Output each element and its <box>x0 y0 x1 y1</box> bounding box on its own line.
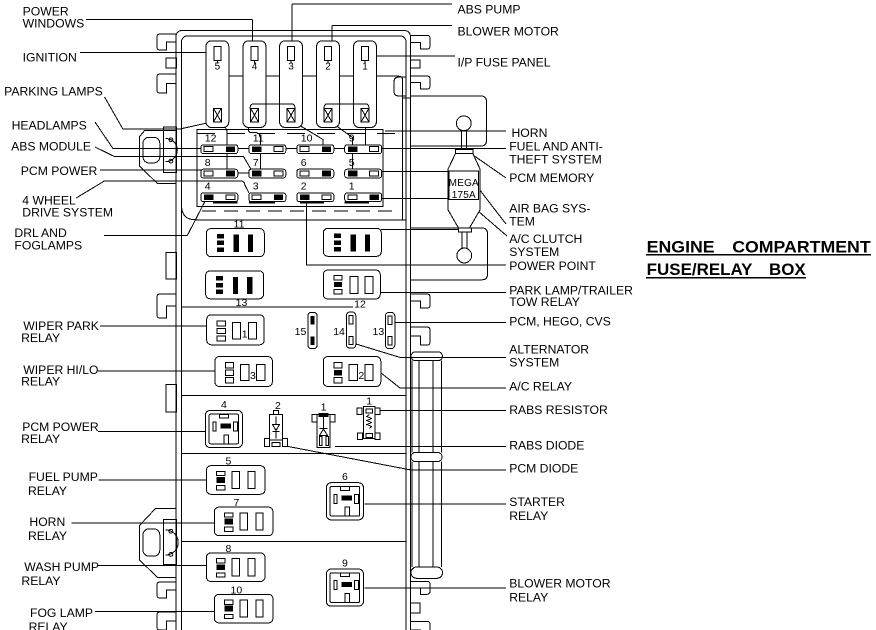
svg-text:3: 3 <box>253 181 259 193</box>
svg-text:9: 9 <box>349 133 355 145</box>
svg-text:STARTER: STARTER <box>509 495 565 509</box>
svg-text:HEADLAMPS: HEADLAMPS <box>12 118 87 132</box>
svg-text:MEGA: MEGA <box>449 178 479 189</box>
svg-text:TOW RELAY: TOW RELAY <box>509 295 580 309</box>
svg-text:PCM MEMORY: PCM MEMORY <box>509 171 594 185</box>
svg-text:5: 5 <box>349 157 355 169</box>
svg-text:1: 1 <box>362 61 368 72</box>
svg-text:ALTERNATOR: ALTERNATOR <box>509 343 589 357</box>
svg-text:RABS DIODE: RABS DIODE <box>509 439 584 453</box>
svg-text:FUSE/RELAY BOX: FUSE/RELAY BOX <box>647 260 807 279</box>
svg-text:2: 2 <box>275 400 281 412</box>
svg-text:3: 3 <box>250 370 256 382</box>
svg-text:WASH PUMP: WASH PUMP <box>24 560 99 574</box>
svg-text:RELAY: RELAY <box>509 509 548 523</box>
svg-text:SYSTEM: SYSTEM <box>509 356 559 370</box>
svg-text:12: 12 <box>354 298 366 310</box>
svg-text:14: 14 <box>333 326 345 338</box>
svg-text:2: 2 <box>301 181 307 193</box>
svg-text:FOG LAMP: FOG LAMP <box>30 606 93 620</box>
svg-text:6: 6 <box>301 157 307 169</box>
svg-text:2: 2 <box>325 61 331 72</box>
svg-text:HORN: HORN <box>29 515 65 529</box>
svg-text:PCM DIODE: PCM DIODE <box>509 462 578 476</box>
svg-text:FUEL PUMP: FUEL PUMP <box>29 470 98 484</box>
svg-text:RELAY: RELAY <box>21 375 60 389</box>
svg-text:RELAY: RELAY <box>28 529 67 543</box>
svg-text:10: 10 <box>231 584 243 596</box>
svg-text:A/C CLUTCH: A/C CLUTCH <box>509 232 582 246</box>
svg-text:SYSTEM: SYSTEM <box>509 245 559 259</box>
svg-text:4: 4 <box>252 61 258 72</box>
svg-text:RABS RESISTOR: RABS RESISTOR <box>509 403 608 417</box>
svg-text:15: 15 <box>295 326 307 338</box>
svg-text:11: 11 <box>234 218 245 230</box>
svg-text:12: 12 <box>205 133 217 145</box>
svg-text:7: 7 <box>253 157 259 169</box>
svg-text:RELAY: RELAY <box>21 331 60 345</box>
svg-text:ABS MODULE: ABS MODULE <box>11 139 91 153</box>
svg-text:5: 5 <box>215 61 221 72</box>
svg-text:7: 7 <box>233 497 239 509</box>
svg-text:PARKING LAMPS: PARKING LAMPS <box>4 85 103 99</box>
svg-text:A/C RELAY: A/C RELAY <box>509 380 572 394</box>
svg-text:13: 13 <box>373 326 385 338</box>
svg-text:RELAY: RELAY <box>29 620 68 630</box>
svg-text:WINDOWS: WINDOWS <box>23 17 85 31</box>
svg-text:6: 6 <box>342 471 348 483</box>
svg-text:THEFT SYSTEM: THEFT SYSTEM <box>509 153 602 167</box>
svg-text:4: 4 <box>205 181 211 193</box>
svg-text:5: 5 <box>225 456 231 468</box>
svg-text:8: 8 <box>225 543 231 555</box>
svg-text:DRIVE SYSTEM: DRIVE SYSTEM <box>22 206 113 220</box>
svg-text:HORN: HORN <box>512 126 548 140</box>
svg-text:RELAY: RELAY <box>21 432 60 446</box>
svg-text:9: 9 <box>342 558 348 570</box>
svg-text:POWER POINT: POWER POINT <box>509 259 596 273</box>
svg-text:175A: 175A <box>452 190 476 201</box>
svg-text:ABS PUMP: ABS PUMP <box>458 3 521 17</box>
svg-text:FUEL AND ANTI-: FUEL AND ANTI- <box>509 140 603 154</box>
svg-text:I/P FUSE PANEL: I/P FUSE PANEL <box>458 56 551 70</box>
svg-text:BLOWER MOTOR: BLOWER MOTOR <box>509 577 611 591</box>
svg-text:2: 2 <box>358 370 364 382</box>
svg-text:1: 1 <box>242 328 248 340</box>
svg-text:4: 4 <box>221 399 227 411</box>
svg-text:FOGLAMPS: FOGLAMPS <box>14 238 82 252</box>
svg-text:AIR BAG SYS-: AIR BAG SYS- <box>509 202 590 216</box>
svg-text:IGNITION: IGNITION <box>23 50 77 64</box>
svg-text:1: 1 <box>349 181 355 193</box>
svg-text:8: 8 <box>205 157 211 169</box>
svg-text:10: 10 <box>301 133 313 145</box>
svg-text:13: 13 <box>236 297 248 309</box>
svg-text:TEM: TEM <box>509 215 535 229</box>
svg-text:RELAY: RELAY <box>509 591 548 605</box>
svg-text:11: 11 <box>253 133 264 145</box>
svg-text:RELAY: RELAY <box>21 574 60 588</box>
svg-text:PCM, HEGO, CVS: PCM, HEGO, CVS <box>509 315 611 329</box>
svg-text:RELAY: RELAY <box>28 484 67 498</box>
svg-text:BLOWER MOTOR: BLOWER MOTOR <box>458 25 560 39</box>
svg-text:1: 1 <box>321 401 327 413</box>
svg-text:1: 1 <box>366 396 372 408</box>
svg-text:ENGINE COMPARTMENT: ENGINE COMPARTMENT <box>647 237 872 256</box>
svg-text:PCM POWER: PCM POWER <box>21 164 98 178</box>
svg-text:3: 3 <box>288 61 294 72</box>
